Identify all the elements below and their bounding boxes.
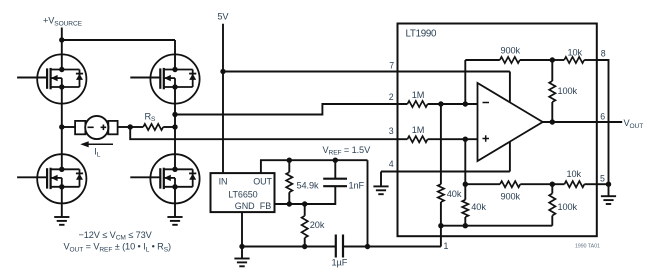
node 5V to pin7 junction: [220, 69, 225, 74]
node GND junction: [239, 244, 244, 249]
svg-text:40k: 40k: [447, 189, 462, 199]
svg-text:10k: 10k: [568, 48, 583, 58]
wire Rs node to Q4 drain: [174, 127, 176, 154]
wire feedback riser: [464, 60, 466, 104]
label 20k: [310, 220, 325, 230]
node VREF (1nF top): [333, 158, 338, 163]
wire pin4 ground stem: [380, 172, 382, 187]
node FB to 20k: [302, 201, 307, 206]
node minus/feedback junction: [463, 101, 468, 106]
resistor Rs: [130, 124, 175, 130]
resistor R2 1M (pin3): [407, 136, 427, 142]
svg-text:3: 3: [389, 126, 394, 136]
label IN: [219, 176, 228, 186]
node Vref bypass junction: [365, 244, 370, 249]
svg-text:8: 8: [601, 49, 606, 59]
motor plus terminal mark: [101, 125, 107, 131]
wire rail to Q2 drain: [174, 40, 176, 54]
label 900k upper: [501, 46, 521, 56]
label pin 8: [601, 49, 606, 59]
wire pin3 net from Rs left: [130, 127, 407, 139]
svg-text:1µF: 1µF: [332, 258, 348, 268]
label 5V: [217, 12, 229, 22]
wire op-amp V- stub: [509, 141, 511, 171]
svg-text:4: 4: [389, 159, 394, 169]
wire top supply rail: [62, 39, 175, 41]
label 10k upper: [568, 48, 583, 58]
label common mode range: [79, 230, 153, 242]
svg-text:900k: 900k: [501, 46, 521, 56]
label GND: [235, 201, 255, 211]
node Rs right junction: [172, 124, 177, 129]
label 100k upper: [558, 86, 578, 96]
node 40k-1 bottom: [438, 223, 443, 228]
resistor R3 900k: [465, 57, 552, 63]
resistor R6 40k: [438, 184, 444, 246]
label 1uF: [332, 258, 348, 268]
resistor R10 100k: [549, 184, 555, 226]
wire rail to Q1 drain: [61, 40, 63, 54]
wire pin5 to ground tie: [597, 183, 609, 185]
node divider left junction: [463, 182, 468, 187]
svg-text:10k: 10k: [567, 169, 582, 179]
wire op-amp output: [543, 121, 623, 123]
resistor R1 1M (pin2): [407, 101, 427, 107]
ground at pin 5: [601, 196, 616, 204]
label 40k second: [471, 202, 486, 212]
svg-text:1M: 1M: [412, 125, 425, 135]
label pin 5: [600, 174, 605, 184]
label 1nF: [349, 180, 365, 190]
node 900k/10k/100k bottom: [550, 182, 555, 187]
wire pin7 net (5V to U1): [223, 71, 510, 73]
svg-text:20k: 20k: [310, 220, 325, 230]
wire motor right brush to Rs: [118, 126, 131, 128]
svg-text:100k: 100k: [558, 202, 578, 212]
svg-text:OUT: OUT: [253, 176, 272, 186]
transistor Q1 (top left MOSFET): [17, 54, 86, 103]
svg-text:LT1990: LT1990: [406, 29, 438, 40]
node 900k/10k/100k top: [550, 57, 555, 62]
wire Q4 source to ground: [174, 203, 176, 217]
ground below Q4: [167, 217, 182, 225]
motor M1 right brush: [108, 121, 117, 134]
regulator U2 LT6650 box: [211, 173, 275, 212]
wire 40k-1 riser: [440, 104, 442, 184]
label 10k lower: [567, 169, 582, 179]
wire Q1 source to motor node: [61, 104, 63, 127]
wire 1M to minus node: [428, 103, 478, 105]
svg-text:GND: GND: [235, 201, 255, 211]
svg-text:54.9k: 54.9k: [297, 180, 319, 190]
svg-text:1M: 1M: [412, 90, 425, 100]
label pin 1: [444, 241, 449, 251]
label VREF = 1.5V: [323, 145, 372, 157]
resistor 54.9k: [286, 160, 292, 204]
node 20k bottom: [302, 244, 307, 249]
svg-text:1nF: 1nF: [349, 180, 365, 190]
transistor Q4 (bottom right MOSFET): [130, 154, 199, 203]
label 1M lower: [412, 125, 425, 135]
label FB: [260, 201, 271, 211]
wire op-amp V+ stub: [509, 72, 511, 102]
resistor 20k: [302, 204, 308, 247]
label +V_SOURCE: [43, 16, 83, 28]
label 100k lower: [558, 202, 578, 212]
wire Vref corner down to bypass node: [367, 160, 369, 246]
node Rs left junction: [128, 124, 133, 129]
label 54.9k: [297, 180, 319, 190]
svg-text:7: 7: [389, 61, 394, 71]
node top rail left junction: [59, 37, 64, 42]
ground below Q3: [54, 217, 69, 225]
ground below LT6650: [234, 259, 249, 267]
label 1M upper: [412, 90, 425, 100]
label pin 2: [389, 92, 394, 102]
transistor Q2 (top right MOSFET): [130, 54, 199, 103]
label 40k first: [447, 189, 462, 199]
amplifier U1 LT1990 box: [398, 24, 597, 237]
svg-text:100k: 100k: [558, 86, 578, 96]
resistor R4 10k: [552, 57, 597, 63]
node plus/divider junction: [463, 137, 468, 142]
wire FB line: [275, 186, 336, 204]
wire pin8 to pin5 tie: [597, 60, 609, 184]
resistor R8 900k: [465, 181, 552, 187]
op-amp minus input mark: [483, 102, 490, 104]
motor M1 left brush: [75, 121, 85, 134]
svg-text:6: 6: [600, 112, 605, 122]
node output/100k junction: [550, 119, 555, 124]
wire 1M to plus node: [428, 138, 478, 140]
node 40k-2 bottom: [463, 223, 468, 228]
label pin 3: [389, 126, 394, 136]
node sense tap to pin 2: [172, 112, 177, 117]
svg-text:40k: 40k: [471, 202, 486, 212]
label LT6650: [228, 189, 257, 199]
wire 1uF to pin1 riser: [343, 246, 441, 248]
label Rs: [145, 111, 157, 123]
capacitor C1 1nF: [323, 160, 347, 186]
op-amp plus input mark: [483, 135, 490, 141]
label 900k lower: [501, 192, 521, 202]
label VOUT: [624, 118, 644, 130]
wire pin2 net from Rs: [175, 104, 407, 115]
label output equation: [64, 242, 172, 254]
svg-text:1: 1: [444, 241, 449, 251]
label OUT: [253, 176, 272, 186]
current arrow I_L: [80, 141, 113, 147]
capacitor C2 1uF: [336, 235, 343, 258]
node pin5 ground junction: [606, 182, 611, 187]
transistor Q3 (bottom left MOSFET): [17, 154, 86, 203]
label pin 6: [600, 112, 605, 122]
label LT1990: [406, 29, 438, 40]
wire 40k-2 riser: [464, 139, 466, 200]
svg-text:5: 5: [600, 174, 605, 184]
svg-text:2: 2: [389, 92, 394, 102]
wire ground bus to 1uF: [242, 246, 336, 248]
svg-text:1990 TA01: 1990 TA01: [575, 243, 600, 249]
svg-text:5V: 5V: [217, 12, 229, 22]
motor minus terminal mark: [88, 126, 94, 128]
resistor R7 40k: [462, 200, 468, 226]
label figure number: [575, 243, 600, 249]
node minus/40k junction: [438, 101, 443, 106]
wire motor node to Q3 drain: [61, 127, 63, 154]
node 54.9k top: [287, 158, 292, 163]
label I_L: [94, 147, 100, 159]
node 54.9k bottom / FB: [287, 201, 292, 206]
label pin 7: [389, 61, 394, 71]
wire Q3 source to ground: [61, 203, 63, 217]
ground at pin 4: [373, 186, 388, 194]
motor M1 body: [85, 116, 108, 139]
wire reference bottom net: [441, 225, 552, 227]
resistor R9 10k: [552, 181, 597, 187]
node motor left junction: [59, 124, 64, 129]
svg-text:IN: IN: [219, 176, 228, 186]
svg-text:900k: 900k: [501, 192, 521, 202]
op-amp U1 triangle: [478, 83, 543, 161]
wire +Vsource stem: [61, 28, 63, 41]
wire pin5 ground stem: [608, 184, 610, 196]
label pin 4: [389, 159, 394, 169]
svg-text:FB: FB: [260, 201, 271, 211]
wire pin4 net to supply: [381, 171, 510, 173]
resistor R5 100k: [549, 60, 555, 122]
wire 5V rail: [222, 24, 224, 173]
wire Q2 source column: [174, 104, 176, 127]
wire node to motor left brush: [62, 126, 75, 128]
wire LT6650 OUT to Vref rail: [261, 160, 368, 173]
svg-text:LT6650: LT6650: [228, 189, 257, 199]
wire LT6650 GND stem: [241, 212, 243, 258]
